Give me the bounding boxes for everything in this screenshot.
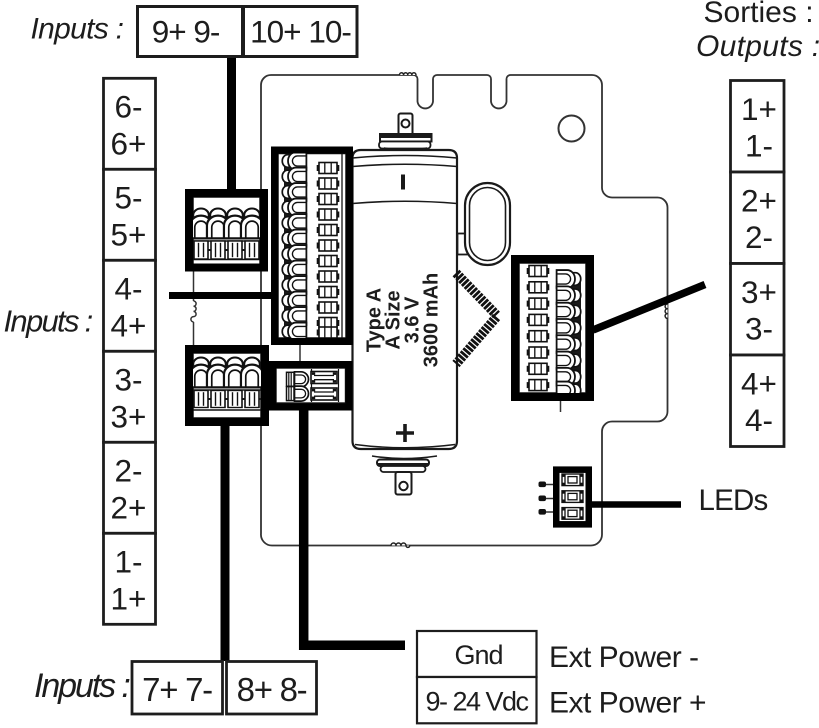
svg-text:4+: 4+ [741,365,777,401]
svg-text:Inputs :: Inputs : [34,667,130,705]
svg-text:Outputs :: Outputs : [696,30,819,63]
svg-text:Inputs :: Inputs : [4,303,93,338]
svg-text:4+: 4+ [111,307,147,343]
svg-text:10+ 10-: 10+ 10- [250,14,351,50]
svg-text:5+: 5+ [111,216,147,252]
svg-text:3-: 3- [745,311,773,347]
svg-text:5-: 5- [114,180,142,216]
svg-text:2+: 2+ [741,182,777,218]
svg-text:3+: 3+ [741,274,777,310]
svg-text:1+: 1+ [111,580,147,616]
svg-text:3+: 3+ [111,398,147,434]
svg-text:4-: 4- [745,402,773,438]
svg-text:Gnd: Gnd [454,640,502,670]
svg-text:4-: 4- [114,271,142,307]
svg-text:Sorties :: Sorties : [704,0,814,29]
svg-text:7+ 7-: 7+ 7- [142,671,212,708]
svg-text:6+: 6+ [111,125,147,161]
svg-text:1+: 1+ [741,91,777,127]
svg-text:9- 24 Vdc: 9- 24 Vdc [425,687,528,717]
svg-text:8+ 8-: 8+ 8- [237,671,307,708]
svg-text:1-: 1- [114,544,142,580]
svg-text:Inputs :: Inputs : [31,13,124,46]
svg-text:Ext Power +: Ext Power + [549,687,706,720]
svg-text:2-: 2- [114,453,142,489]
svg-text:6-: 6- [114,89,142,125]
svg-text:LEDs: LEDs [699,484,768,517]
svg-text:2-: 2- [745,219,773,255]
svg-text:3600 mAh: 3600 mAh [421,273,443,368]
svg-text:2+: 2+ [111,489,147,525]
svg-text:9+ 9-: 9+ 9- [152,14,220,50]
svg-text:3-: 3- [114,362,142,398]
svg-text:1-: 1- [745,128,773,164]
svg-text:Ext Power -: Ext Power - [549,641,699,674]
